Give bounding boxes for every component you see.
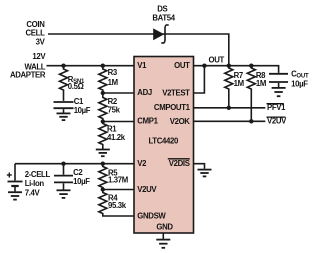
label C1 10uF <box>74 97 91 115</box>
svg-text:CMPOUT1: CMPOUT1 <box>154 103 191 112</box>
junction V2TEST riser <box>202 63 206 67</box>
net label PFV1 <box>267 103 287 112</box>
wire CMPOUT1 to PFV1 <box>194 107 266 109</box>
junction C2 <box>61 162 65 166</box>
ground under COUT <box>272 88 286 96</box>
svg-text:75k: 75k <box>108 106 121 115</box>
label R4 95.3k <box>108 194 127 210</box>
svg-text:10µF: 10µF <box>291 79 308 88</box>
capacitor C1 <box>54 102 74 113</box>
svg-text:LTC4420: LTC4420 <box>148 137 178 146</box>
svg-text:OUT: OUT <box>174 61 190 70</box>
battery 2-cell <box>8 164 23 192</box>
ground under C2 <box>57 190 71 198</box>
svg-text:V2TEST: V2TEST <box>162 88 190 97</box>
ground under R1 <box>96 150 110 157</box>
label C2 10uF <box>73 168 90 186</box>
svg-text:V2OK: V2OK <box>170 117 191 126</box>
wire V2 rail <box>15 163 134 165</box>
svg-text:V2UV: V2UV <box>137 185 157 194</box>
label DS BAT54 <box>152 5 175 23</box>
svg-text:COIN: COIN <box>26 20 45 29</box>
svg-text:1M: 1M <box>256 79 266 88</box>
label R2 75k <box>108 97 121 115</box>
junction coin drop / R7 <box>227 63 231 67</box>
ground at V2DIS <box>198 170 212 177</box>
svg-text:COUT: COUT <box>291 69 309 79</box>
svg-text:12V: 12V <box>32 52 46 61</box>
svg-text:GND: GND <box>156 223 173 232</box>
net label V2UV <box>267 117 288 126</box>
ground at IC GND <box>156 233 170 248</box>
junction V2UV <box>101 187 105 191</box>
svg-text:10µF: 10µF <box>74 106 91 115</box>
wire V2OK to V2UV <box>194 120 266 122</box>
IC U1 LTC4420 body <box>134 57 194 234</box>
ground under battery <box>8 192 22 199</box>
wire OUT rail <box>194 66 279 73</box>
svg-text:ADAPTER: ADAPTER <box>10 71 46 80</box>
svg-text:Li-Ion: Li-Ion <box>25 179 45 188</box>
resistor R1 <box>99 122 107 150</box>
label R3 1M <box>108 68 118 87</box>
svg-text:V1: V1 <box>137 61 147 70</box>
svg-text:1M: 1M <box>108 78 118 87</box>
svg-text:2-CELL: 2-CELL <box>25 170 51 179</box>
junction R8 top <box>249 63 253 67</box>
svg-text:10µF: 10µF <box>73 177 90 186</box>
label 2-CELL Li-Ion 7.4V <box>25 170 51 197</box>
junction R8 bottom <box>249 119 253 123</box>
wire V2UV <box>103 189 134 191</box>
resistor R4 <box>99 190 134 217</box>
junction CMP1 <box>101 119 105 123</box>
label R7 1M <box>234 71 244 88</box>
diode DS BAT54 <box>153 25 169 43</box>
label R1 41.2k <box>107 124 126 142</box>
junction ADJ <box>101 91 105 95</box>
svg-text:V2DIS: V2DIS <box>169 159 190 168</box>
label R8 1M <box>256 71 266 88</box>
svg-text:GNDSW: GNDSW <box>137 212 166 221</box>
wire ADJ <box>103 92 134 94</box>
junction R7 bottom <box>227 106 231 110</box>
resistor R3 <box>99 66 107 93</box>
net label 12V WALL ADAPTER <box>10 52 46 80</box>
svg-text:95.3k: 95.3k <box>108 201 127 210</box>
wire coin cell rail to OUT node <box>48 34 229 66</box>
wire CMP1 <box>103 121 134 123</box>
svg-text:R3: R3 <box>108 68 118 77</box>
svg-text:C2: C2 <box>73 168 83 177</box>
pin V2DIS <box>168 159 190 168</box>
wire adapter to V1 pin <box>47 65 135 67</box>
capacitor COUT <box>269 74 288 87</box>
svg-text:ADJ: ADJ <box>137 88 152 97</box>
svg-text:BAT54: BAT54 <box>152 14 175 23</box>
svg-text:V2UV: V2UV <box>267 117 287 126</box>
resistor RSN1 <box>60 66 68 101</box>
svg-text:DS: DS <box>157 5 167 14</box>
svg-text:CELL: CELL <box>26 29 46 38</box>
svg-text:OUT: OUT <box>209 55 225 64</box>
svg-text:1M: 1M <box>234 79 244 88</box>
svg-text:3V: 3V <box>36 38 46 47</box>
resistor R2 <box>99 93 107 122</box>
capacitor C2 <box>54 164 73 190</box>
net label COIN CELL 3V <box>26 20 46 47</box>
svg-text:0.5Ω: 0.5Ω <box>68 82 84 91</box>
svg-text:41.2k: 41.2k <box>107 133 126 142</box>
label COUT 10uF <box>291 69 309 88</box>
svg-text:CMP1: CMP1 <box>137 117 158 126</box>
wire V2DIS to ground <box>194 164 205 169</box>
resistor R7 <box>225 66 233 108</box>
junction R5 top <box>101 162 105 166</box>
label R5 1.37M <box>108 168 128 184</box>
svg-text:7.4V: 7.4V <box>25 188 41 197</box>
junction R3 top <box>101 63 105 67</box>
wire V2TEST riser <box>194 66 205 93</box>
svg-text:C1: C1 <box>74 97 84 106</box>
resistor R5 <box>99 164 107 190</box>
label RSN1 0.5ohm <box>68 75 85 91</box>
battery plus sign <box>7 173 12 178</box>
svg-text:V2: V2 <box>137 159 147 168</box>
resistor R8 <box>247 66 255 122</box>
junction RSN1 top <box>61 63 65 67</box>
ground under C1 <box>57 113 71 120</box>
svg-text:1.37M: 1.37M <box>108 176 128 185</box>
